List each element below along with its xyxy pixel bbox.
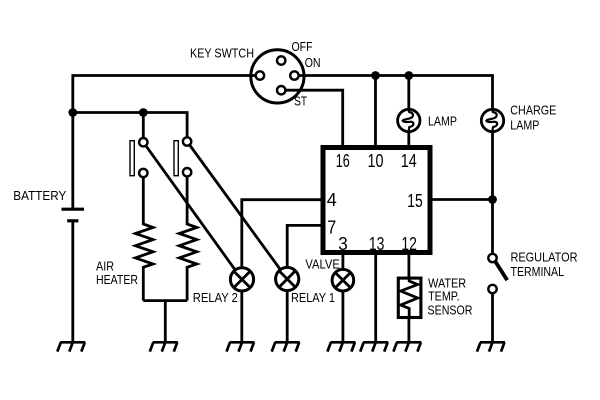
- svg-text:REGULATOR: REGULATOR: [511, 250, 578, 265]
- svg-text:15: 15: [407, 190, 423, 211]
- svg-text:ON: ON: [305, 55, 321, 70]
- svg-text:BATTERY: BATTERY: [13, 188, 66, 203]
- svg-text:LAMP: LAMP: [428, 114, 457, 129]
- svg-text:ST: ST: [294, 94, 307, 109]
- svg-text:LAMP: LAMP: [510, 117, 539, 132]
- svg-text:4: 4: [327, 189, 337, 210]
- svg-text:7: 7: [327, 217, 336, 238]
- svg-text:RELAY 1: RELAY 1: [291, 290, 335, 305]
- svg-text:13: 13: [369, 233, 385, 254]
- svg-text:TEMP.: TEMP.: [428, 289, 460, 304]
- svg-text:10: 10: [368, 150, 384, 171]
- svg-text:KEY SWTCH: KEY SWTCH: [190, 45, 254, 60]
- svg-text:3: 3: [338, 233, 348, 254]
- svg-text:SENSOR: SENSOR: [428, 302, 473, 317]
- svg-text:RELAY 2: RELAY 2: [193, 290, 238, 305]
- svg-text:16: 16: [336, 150, 350, 171]
- svg-text:HEATER: HEATER: [96, 272, 138, 287]
- svg-text:OFF: OFF: [292, 39, 313, 54]
- svg-text:TERMINAL: TERMINAL: [511, 264, 565, 279]
- svg-text:12: 12: [401, 233, 417, 254]
- svg-text:CHARGE: CHARGE: [510, 103, 556, 118]
- svg-text:14: 14: [401, 150, 417, 171]
- svg-text:VALVE: VALVE: [305, 257, 340, 272]
